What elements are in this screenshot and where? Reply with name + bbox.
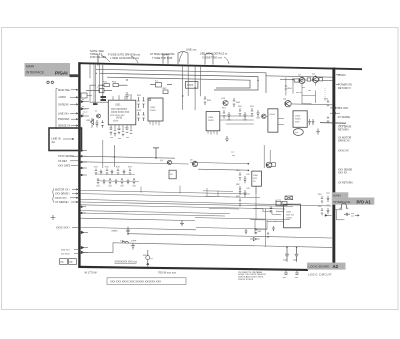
boxed note (bottom) [107,278,186,285]
svg-text:xxx: xxx [351,216,354,218]
junction dots top-left [95,73,127,86]
note fine print block [238,271,266,281]
left connector row K-2 [61,254,78,256]
svg-text:U102: U102 [150,107,156,109]
discrete row under U1 [110,130,132,137]
svg-text:700 W xxx xxx: 700 W xxx xxx [158,271,177,275]
junction dots bottom [127,233,297,248]
right connector row P1-4 [330,112,350,119]
svg-text:xxx: xxx [126,137,129,139]
diode CR10 on bottom wire [250,237,260,240]
wire risers mid band extra [207,186,256,196]
svg-text:GATE/XX: GATE/XX [58,103,69,106]
svg-text:XX XXX /: XX XXX / [61,254,71,256]
IC U1 top pins [113,95,131,100]
svg-text:XXXX: XXXX [295,118,301,120]
inductor L1 below right label [340,203,349,208]
svg-text:CR2: CR2 [162,88,167,90]
svg-text:T SIDE TOP PCB: T SIDE TOP PCB [152,56,173,60]
underlined note bottom [115,261,138,264]
wire bus rows mid right segment [195,218,290,229]
dotted sense line near border [324,88,326,102]
staircase wire right-mid [253,208,281,214]
junction dots mid [182,80,259,97]
end dots [248,163,250,171]
svg-text:xxx: xxx [232,155,235,157]
voltage reg U6 [252,171,262,186]
wire Q3 to border [291,103,332,106]
IC U1 [108,100,136,125]
resistor R64 vertical [285,86,293,90]
component column mid-center [239,172,247,207]
svg-text:XXX XX /: XXX XX / [61,250,71,252]
svg-text:LOGIC CIRCUIT: LOGIC CIRCUIT [308,273,332,277]
wire vertical stub d4 [200,66,202,96]
connector bar from label to frame [70,74,80,77]
component box F1 [186,81,198,88]
svg-text:XXXXXXXX XXX xxx: XXXXXXXX XXX xxx [115,261,138,264]
net arrow bottom-mid [147,263,149,268]
note top annotation 3 [150,52,175,60]
resistor R62 [307,78,311,81]
left connector labels brace 2 [52,189,55,203]
wire vertical stub d3 [194,66,196,110]
svg-text:XXXX: XXXX [286,217,292,219]
svg-text:1µF: 1µF [293,260,297,262]
wire hline y157 [81,156,175,158]
svg-text:xxx xx: xxx xx [296,92,302,94]
junction dots mid band [114,156,196,162]
svg-text:PWR RET-: PWR RET- [58,118,70,121]
text cluster near Q1 [296,87,311,94]
wire verticals under bus right [286,77,293,95]
wire vertical stub d1 [182,66,184,110]
ground sym right [316,129,320,135]
svg-text:LOGIC BOARD: LOGIC BOARD [309,264,331,268]
schematic frame bottom border [78,266,308,271]
right connector row P1-8 [338,168,353,174]
transistor Q2 [312,74,319,83]
svg-text:XXXX XXXX XXX: XXXX XXXX XXX [111,112,130,114]
IC U3 [206,112,220,131]
polarity cross mark [51,215,56,220]
right connector row P1-9 [338,181,353,184]
wire bus y80 right [280,79,332,80]
svg-text:L SIDE GATE DRIVE xxx: L SIDE GATE DRIVE xxx [110,56,140,60]
wire vertical stub d2 [187,66,189,96]
svg-text:XXXX SENSE: XXXX SENSE [58,155,74,158]
transformer WF cluster [143,250,154,263]
svg-text:xxx x: xxx x [83,109,88,111]
resistor R41 [204,96,212,105]
svg-text:P/GAI: P/GAI [55,70,68,75]
crystal Y1 ellipse [293,129,303,136]
wire steps into U7 [250,200,284,234]
tall box U4 [268,109,278,132]
jumper stub W1 over border [162,55,169,64]
left connector row J3-2 [58,160,78,163]
wire bus y72 right [266,76,332,77]
connector block J2 box (left) [49,128,82,151]
node T stub [153,148,159,159]
right edge column labels [318,193,331,208]
svg-text:xxx: xxx [308,90,311,92]
left connector row J4-4 [55,201,78,204]
IC U2 [148,98,163,126]
resistor R85 bottom [255,228,262,234]
svg-text:A2: A2 [333,264,339,269]
wire bus line 1 [96,69,266,93]
wire short risers mid band [141,186,240,195]
resistor R61 [294,79,299,82]
resistor R66 at border [327,117,330,123]
left connector row J1-5 [58,118,78,121]
svg-text:U104: U104 [270,114,276,116]
left connector row J1-1 [58,89,78,92]
wire link y95 right [302,95,316,103]
svg-text:MAIN: MAIN [333,193,341,197]
left connector row K-1 [61,250,78,252]
right connector row P1-3 [330,107,348,110]
small box pair right-mid [276,199,287,205]
small cap C5 [95,120,98,127]
svg-text:DRIVE XX: DRIVE XX [338,140,350,143]
tiny marks near center [231,152,235,157]
tiny text rows near left border [83,109,97,114]
terminal box TB1 (bottom-left outside) [60,259,68,265]
left connector row J1-6 [58,125,78,128]
transistor Q4 [160,160,172,165]
svg-text:xx x: xx x [231,152,235,154]
component box K1 [150,81,172,87]
wire tap pair left lower [81,206,86,214]
svg-text:XX: XX [60,261,64,264]
component cluster left-mid row2 [97,178,135,184]
resistor network column RN1 [137,95,145,121]
note top annotation 1 [90,49,110,62]
left arrow tap B [81,246,88,249]
discrete pair above U7 [267,206,275,238]
svg-text:XX RET: XX RET [58,160,68,163]
svg-text:+XX VDC: +XX VDC [338,107,349,110]
wire hline y243 [113,243,332,248]
jumper stub W3 over border [205,53,213,65]
svg-text:xxxxx: xxxxx [112,230,119,233]
left connector row J3-3 [58,164,78,167]
note top annotation 5 [200,52,229,64]
right edge component column [321,196,330,215]
svg-text:MAIN: MAIN [26,65,35,69]
component row under right label [344,213,359,218]
right connector arrow tap +5V [336,74,340,76]
diode CR1 [86,118,94,128]
svg-text:+5VDC: +5VDC [338,73,347,77]
tall box U7 [284,204,301,228]
svg-text:SEE XXXX DETAILS xx: SEE XXXX DETAILS xx [200,52,228,56]
svg-text:xx xx: xx xx [83,112,88,114]
connector box on left border [81,93,92,98]
svg-text:XXX XX: XXX XX [286,214,294,216]
svg-text:1µF: 1µF [283,260,287,262]
capacitor C61 on line [131,241,137,250]
left connector row J1-3 [58,103,78,106]
wire U6 drop [255,186,257,220]
schematic frame top border [79,62,362,70]
wire vertical x264 [263,145,265,168]
svg-text:XXX: XXX [253,178,258,180]
wire into tall box [266,116,284,124]
arrow tap inside frame near right border [325,214,332,216]
transistor Q10 [221,98,228,106]
screw hole pair under label [47,81,54,83]
left arrow tap C [81,251,88,254]
svg-text:xxx: xxx [118,138,121,140]
resistor R1 on wire [98,82,122,87]
svg-text:LINE xxx: LINE xxx [186,48,197,52]
left connector row J4-1 [55,188,78,191]
extra inner text labels U1 [110,115,125,122]
discrete labels under U1 [109,128,130,140]
junction blob cluster [93,96,106,105]
transistor Q3 [283,99,291,107]
svg-text:CR5: CR5 [86,120,91,122]
capacitor C60 [112,227,131,235]
svg-text:+5VDC: +5VDC [58,96,66,99]
svg-text:U107: U107 [286,211,292,213]
left connector labels bracket [56,89,58,129]
wire hline y234 [128,234,332,238]
svg-text:AT SIDE MOUNTING: AT SIDE MOUNTING [150,52,175,56]
transistor Q11 [262,114,266,118]
right connector row P1-5 [338,125,352,131]
transistor Q6 [266,162,272,168]
left connector row J3-1 [58,155,78,158]
right connector row P1-2 [336,84,352,90]
svg-text:xx: xx [95,111,97,113]
wire vertical from top border [101,64,104,100]
resistor R33 vertical [101,120,103,128]
cluster connect wire [95,174,139,182]
right connector row P1-6 [338,136,351,142]
wire vertical x102 mid [102,140,104,168]
wire vertical x270 [269,150,271,162]
svg-text:XXXXX XXXXX: XXXXX XXXXX [238,279,254,281]
wire hline y220 left portion [81,218,195,220]
box beside Q6 [272,163,276,167]
transistor Q5 [190,159,198,166]
svg-text:U101: U101 [115,104,121,106]
svg-text:XXXX XX: XXXX XX [338,149,349,152]
wire vertical x114 [113,145,115,167]
wire hlines with end dots [81,162,248,170]
net label stubs left inner [82,99,85,115]
schematic frame right border [332,68,335,270]
wire hline y229 left portion [81,227,196,229]
right connector row P1-7 [338,149,349,152]
svg-text:SENSE XX: SENSE XX [58,125,71,128]
svg-text:XX: XX [69,261,73,264]
component cluster left-mid row1 [95,169,131,175]
svg-text:P/O A1: P/O A1 [357,200,372,205]
note top annotation 4 [179,48,197,62]
svg-text:AC: AC [52,140,56,144]
small box X right-mid [285,196,293,200]
svg-text:RETURN X: RETURN X [338,87,351,90]
inductor L2 on line [120,240,128,243]
left connector row J4-2 [55,193,78,196]
svg-text:XX SENSE: XX SENSE [338,116,351,119]
left connector row J1-4 [58,112,78,115]
label box MAIN INTERFACE P/O A1 (right) [332,192,375,204]
jumper stub W2 over border [178,52,188,65]
capacitor C91 below border [295,270,300,279]
svg-text:17HF: 17HF [131,241,137,243]
left connector row J4-3 [55,197,78,200]
svg-text:XX SENSE /: XX SENSE / [55,201,69,204]
svg-text:MOTOR XX /: MOTOR XX / [55,188,70,191]
note top annotation 2 [108,53,141,63]
junction dots right [292,76,316,81]
resistor R63 [319,78,323,81]
svg-text:XXXX XXX /: XXXX XXX / [56,226,70,229]
svg-text:XXX XXX XXXX XXX XXXXX XXXXXX: XXX XXX XXXX XXX XXXXX XXXXXX XXX [110,279,161,283]
svg-text:XXXX XX /: XXXX XX / [55,197,67,200]
svg-text:xx xx: xx xx [277,199,282,201]
component box K2 [162,88,168,93]
component box on wire y90 [86,87,112,93]
svg-text:U105: U105 [295,115,301,117]
wire bus line 2 [100,73,258,90]
svg-text:XXX XXXX XXX: XXX XXXX XXX [110,115,125,117]
node tap arrows at left border upper [81,100,89,117]
svg-text:RETURN: RETURN [338,129,349,132]
svg-text:XXXX: XXXX [208,120,214,122]
discrete cluster mid 1 [223,108,260,119]
svg-text:XXXX: XXXX [150,110,156,112]
label box LOGIC BOARD A2 (bottom-right) [307,263,346,270]
svg-text:XXXX: XXXX [187,85,194,87]
svg-text:MAIN SW+: MAIN SW+ [58,89,71,92]
wire long bus rows mid [81,190,332,216]
terminal box TB2 (bottom-left outside) [69,259,77,265]
component column labels [236,170,251,198]
wire vertical x265 bottom-right [265,209,267,248]
left connector row J5-1 [56,226,78,229]
capacitor C90 below border [283,270,289,279]
svg-text:xx xxx: xx xxx [339,125,346,127]
label box MAIN INTERFACE P/GAI (top-left) [25,63,71,77]
cluster labels left-mid [94,167,137,188]
svg-text:(XXX): (XXX) [116,118,122,120]
IC U3 pins [208,131,217,135]
wire crossing right border [320,122,346,125]
capacitor C70 vertical [283,247,289,262]
capacitor pair next to U5 [308,119,315,125]
resistor R65 at border [324,98,329,106]
capacitor C71 vertical [293,247,299,261]
short segments mid lower [203,191,239,209]
resistor R2 on wire [112,82,128,87]
left connector row J1-2 [58,96,78,99]
discrete cluster mid labels [222,106,261,122]
svg-text:XX RETURN: XX RETURN [338,181,353,184]
ground sym mid 2 [225,136,229,142]
svg-text:W 1770 W: W 1770 W [85,271,98,275]
svg-text:INTERFACE: INTERFACE [333,200,350,204]
svg-text:XXXX: XXXX [113,121,119,123]
wire stub crossing top border [97,55,99,66]
wire left drop to U1 [90,85,108,102]
wire mid-left riser [89,64,91,78]
capacitor C62 bottom [245,229,248,234]
wire taps left border mid [81,150,87,176]
svg-text:XXX DRIVE /: XXX DRIVE / [55,193,70,196]
svg-text:XXX XX: XXX XX [338,172,347,175]
ground sym mid [180,220,184,226]
svg-text:XXX GATE: XXX GATE [58,164,71,167]
transistor Q7 small [97,114,101,118]
svg-text:xxx: xxx [302,87,305,89]
svg-text:14F: 14F [120,240,124,242]
IC U5 [293,111,307,128]
schematic frame left border [78,62,80,268]
wire stair bottom-left [81,243,113,253]
wire U3 to U4 [220,116,254,124]
resistor R42 [233,98,241,107]
wire bus line 3 [107,77,250,88]
svg-text:U103: U103 [208,117,214,119]
svg-text:XXX XXXXXXX: XXX XXXXXXX [111,109,127,111]
capacitor C1 [125,92,133,100]
svg-text:xxx: xxx [110,137,113,139]
svg-text:INTERFACE: INTERFACE [26,70,44,74]
wire twin verticals top-left [94,64,100,105]
IC U1 bottom pins [111,125,131,131]
svg-text:XXX: XXX [295,121,300,123]
wire under right label [335,210,344,220]
transistor Q1 [298,75,305,84]
wire drops below Q1 Q2 [302,83,316,105]
left arrow tap A [81,231,88,234]
svg-text:LINE XX+: LINE XX+ [58,112,70,115]
relay box K3 [169,170,176,179]
svg-text:P SIDE GATE DRIVE Bxxxx: P SIDE GATE DRIVE Bxxxx [108,53,141,57]
